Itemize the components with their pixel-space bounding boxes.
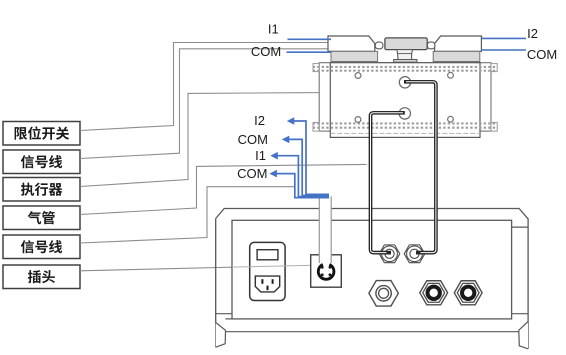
svg-text:I1: I1	[268, 22, 279, 37]
controller box outer shell	[216, 209, 528, 349]
gripper main body	[330, 63, 480, 138]
base bar	[225, 319, 519, 332]
label box plug (插头)	[3, 265, 80, 289]
screw hole top-right	[448, 72, 454, 78]
wire callout from air-tube box to black tube	[80, 164, 367, 214]
blue wire from right finger COM	[482, 49, 527, 51]
controller right foot	[519, 322, 528, 349]
screw hole top-left	[355, 73, 361, 79]
label box air-tube (气管)	[3, 206, 80, 230]
DIN pins	[321, 266, 331, 276]
DIN socket circle	[318, 264, 334, 279]
signal cable tube	[319, 196, 331, 263]
rail dashed rows bottom	[313, 123, 497, 127]
svg-text:I1: I1	[255, 148, 266, 163]
wire callout from actuator box to gripper body	[80, 92, 336, 187]
screw hole bottom-left	[355, 117, 361, 123]
svg-text:COM: COM	[237, 166, 267, 181]
power entry module	[250, 242, 285, 300]
svg-text:I2: I2	[254, 113, 265, 128]
controller left foot	[216, 323, 226, 348]
port B circle	[399, 108, 410, 119]
body inner seam line	[330, 132, 480, 134]
svg-text:COM: COM	[238, 132, 268, 147]
label box signal-line-2 (信号线)	[3, 235, 80, 259]
rail dashed rows top	[313, 67, 497, 71]
right finger (limit switch)	[427, 36, 481, 62]
air tube from port A to connector 2	[404, 82, 436, 253]
wire callout from plug box to DIN plug	[80, 265, 315, 271]
port A circle	[399, 77, 410, 88]
blue wire COM (upper) with arrow	[288, 139, 329, 195]
hex connector B (bottom-middle)	[420, 281, 448, 305]
rail end stubs	[313, 64, 497, 132]
C14 inlet	[255, 276, 279, 292]
piston flange	[394, 60, 417, 63]
plug callout line over panel	[232, 265, 315, 267]
blue wire to left finger I1	[288, 38, 332, 40]
hex connector A (bottom-left)	[369, 281, 398, 306]
svg-text:COM: COM	[251, 44, 281, 59]
center cap	[385, 38, 427, 50]
front panel	[232, 220, 512, 319]
blue wire from right finger I2	[482, 37, 527, 39]
connector 1 (air, top-left)	[379, 245, 400, 263]
piston under cap	[397, 50, 413, 60]
C14 pins	[261, 279, 273, 290]
controller bottom edges	[216, 227, 528, 314]
hex connector C (bottom-right)	[454, 281, 482, 305]
connector 2 (air, top-right)	[404, 245, 425, 263]
label box actuator (执行器)	[3, 178, 80, 202]
svg-text:COM: COM	[527, 47, 557, 62]
blue wire I1 with arrow	[277, 156, 330, 197]
air tube from port B to connector 1	[371, 113, 405, 253]
label box signal-line-1 (信号线)	[3, 150, 80, 174]
wire callout from signal-line-1 box to left finger	[80, 49, 333, 159]
gripper side plates	[319, 63, 491, 131]
DIN socket square	[311, 255, 342, 287]
label box limit-switch (限位开关)	[3, 122, 80, 146]
blue wire I2 with arrow	[293, 121, 329, 194]
screw hole bottom-right	[448, 116, 454, 122]
blue wire COM (lower) with arrow	[276, 174, 330, 198]
left finger (limit switch)	[328, 36, 383, 62]
blue wire to left finger COM	[287, 51, 332, 53]
wire callout from signal-line-2 box to blue wires	[80, 187, 296, 243]
svg-text:I2: I2	[527, 26, 538, 41]
power switch window	[257, 250, 278, 260]
wire callout from limit-switch box to left finger	[80, 43, 344, 131]
